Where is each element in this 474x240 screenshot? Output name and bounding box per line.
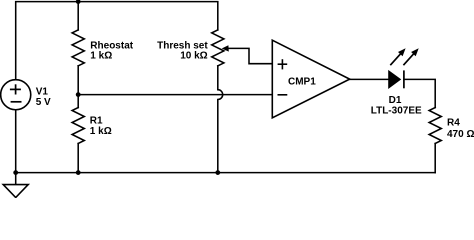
svg-text:470 Ω: 470 Ω (447, 129, 474, 140)
svg-text:1 kΩ: 1 kΩ (90, 51, 112, 62)
svg-text:Rheostat: Rheostat (90, 40, 133, 51)
svg-text:10 kΩ: 10 kΩ (180, 51, 207, 62)
svg-text:Thresh set: Thresh set (157, 40, 208, 51)
svg-text:5 V: 5 V (36, 97, 51, 108)
svg-text:1 kΩ: 1 kΩ (90, 126, 112, 137)
svg-text:LTL-307EE: LTL-307EE (371, 105, 422, 116)
svg-text:V1: V1 (36, 86, 49, 97)
svg-text:R1: R1 (90, 116, 103, 127)
svg-text:CMP1: CMP1 (288, 77, 316, 88)
svg-text:R4: R4 (447, 117, 460, 128)
